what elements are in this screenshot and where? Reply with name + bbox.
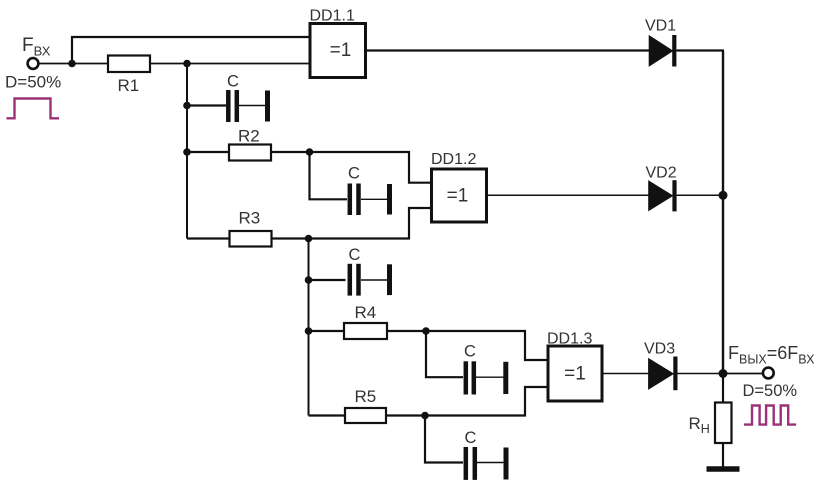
svg-text:RН: RН bbox=[689, 414, 710, 436]
capacitor C3 right plate bbox=[387, 264, 392, 295]
svg-text:C: C bbox=[349, 246, 361, 264]
capacitor C4 plates bbox=[466, 361, 474, 394]
junction R4 row bbox=[305, 327, 313, 335]
capacitor C3 plates bbox=[350, 264, 359, 296]
wire input to node bbox=[39, 63, 73, 65]
capacitor C2 right plate bbox=[387, 184, 392, 215]
output waveform bbox=[744, 406, 796, 425]
op-amp U1 XOR gate DD1.1 bbox=[310, 24, 366, 78]
resistor R2 bbox=[229, 145, 271, 161]
wire output node down to RH bbox=[722, 374, 724, 403]
svg-text:C: C bbox=[348, 165, 360, 183]
output terminal bbox=[763, 368, 774, 379]
svg-text:FВЫХ=6FВХ: FВЫХ=6FВХ bbox=[728, 343, 815, 367]
wire VD1 to bus bbox=[676, 49, 724, 51]
diode VD2 bbox=[649, 181, 673, 211]
svg-text:C: C bbox=[465, 429, 477, 447]
junction C3 tap bbox=[305, 276, 313, 284]
wire R3 to DD1.2 bottom input bbox=[272, 208, 432, 239]
input terminal F_BX bbox=[28, 58, 39, 69]
diode VD3 bbox=[649, 359, 674, 389]
wire node to R1 bbox=[72, 63, 108, 65]
resistor RH bbox=[715, 403, 732, 444]
wire C2 to plate bbox=[361, 198, 387, 200]
wire C3 to plate bbox=[361, 279, 387, 281]
svg-text:R1: R1 bbox=[118, 76, 140, 95]
wire C5 to plate bbox=[477, 462, 503, 464]
wire bus top segment bbox=[722, 51, 724, 196]
junction R2 row bbox=[183, 148, 191, 156]
svg-text:=1: =1 bbox=[564, 364, 586, 385]
junction R5 output bbox=[421, 412, 429, 420]
svg-text:R3: R3 bbox=[239, 209, 261, 228]
svg-text:=1: =1 bbox=[447, 186, 469, 207]
svg-text:D=50%: D=50% bbox=[743, 382, 798, 400]
wire to R4 bbox=[309, 330, 345, 332]
wire RH to ground bbox=[722, 443, 724, 467]
wire VD3 to output node bbox=[678, 373, 724, 375]
wire to capacitor C1 bbox=[187, 104, 226, 106]
svg-text:R4: R4 bbox=[355, 303, 377, 322]
capacitor C5 right plate bbox=[504, 448, 509, 480]
wire DD1.1 output bbox=[366, 49, 650, 51]
wire bus middle segment bbox=[722, 195, 724, 373]
wire C1 to plate bbox=[239, 105, 265, 107]
resistor R4 bbox=[344, 323, 387, 339]
resistor R5 bbox=[345, 408, 386, 423]
op-amp U3 XOR gate DD1.3 bbox=[548, 346, 602, 401]
capacitor C5 plates bbox=[466, 447, 475, 480]
capacitor C1 plates bbox=[228, 90, 237, 122]
node input junction bbox=[68, 60, 76, 68]
junction R1 output bbox=[183, 60, 191, 68]
resistor R3 bbox=[230, 231, 272, 247]
wire C4 to plate bbox=[476, 376, 504, 378]
wire DD1.3 output bbox=[602, 373, 649, 375]
svg-text:VD1: VD1 bbox=[645, 18, 676, 35]
junction bus VD2 bbox=[719, 191, 728, 200]
resistor R1 bbox=[108, 56, 150, 73]
wire down to C5 bbox=[425, 416, 463, 463]
capacitor C4 right plate bbox=[503, 362, 508, 394]
wire vertical column x=308.5 bbox=[308, 239, 310, 416]
capacitor C1 right plate bbox=[265, 91, 270, 122]
svg-text:VD3: VD3 bbox=[644, 341, 675, 358]
wire to capacitor C3 bbox=[309, 279, 346, 281]
junction output node bbox=[719, 369, 728, 378]
svg-text:C: C bbox=[464, 343, 476, 361]
svg-text:VD2: VD2 bbox=[646, 165, 677, 182]
wire R2 to DD1.2 top input bbox=[271, 152, 432, 183]
wire R4 to DD1.3 top input bbox=[387, 331, 548, 360]
input waveform bbox=[7, 99, 60, 119]
svg-text:D=50%: D=50% bbox=[5, 73, 61, 92]
wire VD2 to bus bbox=[677, 194, 723, 196]
junction C1 tap bbox=[183, 102, 191, 110]
wire vertical left column x=187 bbox=[186, 64, 188, 239]
op-amp U2 XOR gate DD1.2 bbox=[432, 169, 487, 222]
svg-text:=1: =1 bbox=[330, 40, 352, 61]
svg-text:C: C bbox=[227, 73, 239, 91]
wire R1 to DD1.1 bottom input bbox=[150, 63, 310, 65]
capacitor C2 plates bbox=[350, 184, 359, 216]
junction R2 output bbox=[306, 148, 314, 156]
wire down to C2 bbox=[310, 152, 348, 199]
svg-text:R2: R2 bbox=[238, 127, 260, 146]
svg-text:DD1.3: DD1.3 bbox=[547, 331, 592, 348]
junction R4 output bbox=[422, 327, 430, 335]
wire to R2 bbox=[187, 151, 229, 153]
wire R5 to DD1.3 bottom input bbox=[386, 387, 548, 416]
wire to output terminal bbox=[723, 373, 763, 375]
wire DD1.2 output bbox=[487, 194, 650, 196]
wire node up to DD1.1 top input bbox=[72, 37, 310, 64]
svg-text:FВХ: FВХ bbox=[22, 35, 51, 59]
ground bbox=[707, 466, 740, 472]
wire corner to R3 bbox=[187, 237, 230, 239]
svg-text:DD1.2: DD1.2 bbox=[431, 151, 476, 168]
wire corner to R5 bbox=[309, 414, 346, 416]
wire down to C4 bbox=[426, 331, 463, 377]
svg-text:R5: R5 bbox=[355, 387, 377, 406]
svg-text:DD1.1: DD1.1 bbox=[310, 8, 355, 25]
junction R3 output bbox=[305, 235, 313, 243]
diode VD1 bbox=[649, 36, 672, 66]
